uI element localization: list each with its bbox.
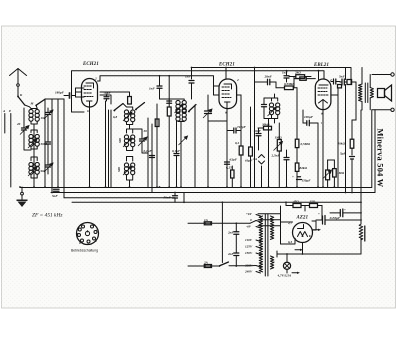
svg-text:50kΩ: 50kΩ xyxy=(338,142,346,146)
resistor 0.25M xyxy=(226,166,234,188)
svg-text:180pF: 180pF xyxy=(55,91,65,95)
svg-text:82kΩ: 82kΩ xyxy=(300,166,308,170)
wire: tube U2 pins xyxy=(214,86,242,187)
svg-text:3000: 3000 xyxy=(40,142,48,146)
wire: right verticals xyxy=(331,68,375,203)
svg-text:Betriebsschaltung: Betriebsschaltung xyxy=(71,249,98,253)
terminal A xyxy=(2,109,6,133)
phono input TA chevrons xyxy=(253,155,265,188)
capacitor 10nF xyxy=(254,128,262,150)
svg-text:45Ω: 45Ω xyxy=(292,200,299,204)
tuning cap C4 xyxy=(44,157,53,174)
arrow heater a xyxy=(313,229,321,231)
lamp dial xyxy=(283,254,290,273)
tuning cap C1 xyxy=(44,108,53,120)
svg-text:500: 500 xyxy=(117,167,121,172)
terminal E xyxy=(8,109,12,187)
svg-text:6,8: 6,8 xyxy=(113,115,117,119)
resistor R5 xyxy=(245,107,253,187)
svg-text:5nF: 5nF xyxy=(52,194,58,198)
svg-text:2x50µF: 2x50µF xyxy=(329,216,341,220)
tap 240V xyxy=(244,270,261,274)
label coil values left bank xyxy=(16,116,47,173)
resistor R15 heater b xyxy=(286,200,322,221)
svg-text:EBL21: EBL21 xyxy=(313,63,329,68)
svg-text:+: + xyxy=(344,208,346,212)
svg-text:110V: 110V xyxy=(245,238,253,242)
tap 110V xyxy=(245,238,261,242)
switch S2 xyxy=(30,99,65,109)
capacitor 5nF cathode xyxy=(52,189,59,198)
wire: det column xyxy=(255,82,298,187)
resistor R16 field coil xyxy=(359,202,365,254)
tap 150V xyxy=(245,251,261,255)
tube U1 ECH21 xyxy=(82,77,98,114)
tuning cap C2 xyxy=(20,122,29,136)
svg-text:2,5nF: 2,5nF xyxy=(271,154,281,158)
capacitor 0.1uF left xyxy=(144,149,155,158)
svg-text:500: 500 xyxy=(118,138,122,143)
arrow heater c xyxy=(292,272,300,274)
svg-text:1nF: 1nF xyxy=(149,87,155,91)
resistor R6 2kOhm xyxy=(289,71,311,79)
resistor R2 osc xyxy=(167,76,172,187)
capacitor 25nF pair EBL xyxy=(331,79,342,88)
transformer T2 secondary heater xyxy=(270,256,273,269)
svg-text:2: 2 xyxy=(94,77,97,81)
resistor R7 0.5MOhm xyxy=(276,82,297,90)
svg-text:0,5MΩ: 0,5MΩ xyxy=(301,142,311,146)
wire: bandfilter verticals xyxy=(106,101,158,193)
wire: AZ21 connections xyxy=(258,206,316,254)
svg-text:0,25: 0,25 xyxy=(226,166,232,170)
capacitor 2nF mains a xyxy=(227,223,239,234)
svg-text:2kΩ: 2kΩ xyxy=(294,71,301,75)
svg-text:0,1µF: 0,1µF xyxy=(144,149,153,153)
svg-text:-6V: -6V xyxy=(246,225,252,229)
svg-text:2: 2 xyxy=(92,223,95,227)
arrow heater b xyxy=(295,249,303,251)
svg-text:0,2: 0,2 xyxy=(235,141,239,145)
pot arrow feedback xyxy=(179,136,188,145)
coil L2 xyxy=(28,130,39,149)
capacitor tone cluster xyxy=(339,75,356,86)
transformer T1 secondary xyxy=(370,75,373,110)
coil L1 antenna MW/LW xyxy=(29,109,39,188)
trimmer C6 padder xyxy=(203,95,212,187)
capacitor 100uF cathode EBL xyxy=(303,110,318,187)
svg-text:3: 3 xyxy=(80,223,83,227)
svg-text:6,3: 6,3 xyxy=(288,240,292,244)
svg-text:150µF: 150µF xyxy=(302,179,312,183)
capacitor 63uF cathode U2 xyxy=(225,158,238,165)
resistor R4 xyxy=(235,95,243,187)
transformer T1 output primary xyxy=(359,68,363,111)
tap 220V xyxy=(244,264,261,268)
capacitor 28nF xyxy=(255,68,277,85)
capacitor 740pF xyxy=(227,125,247,133)
wire: mains vertical xyxy=(221,202,223,262)
resistor R13 1MOhm xyxy=(333,160,345,187)
wire: mixer grid link xyxy=(208,120,227,122)
svg-text:4: 4 xyxy=(77,226,80,230)
capacitor 150uF electrolytic xyxy=(292,175,311,183)
coil L5 bandfilter 1b with 500 label xyxy=(118,129,135,151)
capacitor 50nF bus xyxy=(164,193,185,203)
wire: top rail A y=70.7 xyxy=(72,71,325,112)
transformer T2 power primary xyxy=(259,216,262,272)
resistor R12 50kOhm xyxy=(338,120,354,155)
capacitor 5uF electrolytic xyxy=(340,152,355,193)
wire: bus B2 y=192.5 xyxy=(51,192,375,194)
tap -6V xyxy=(246,225,261,229)
svg-text:+: + xyxy=(292,175,294,179)
antenna xyxy=(10,69,27,98)
svg-text:240V: 240V xyxy=(244,270,253,274)
tap 0 xyxy=(250,218,261,222)
trimmer C5 xyxy=(133,129,148,153)
resistor R9 0.5MOhm AF xyxy=(295,139,310,163)
switch S6 mains xyxy=(219,262,250,267)
wire: bus B3 y=197.7 xyxy=(64,197,175,199)
capacitor 1nF osc grid xyxy=(185,75,194,100)
tap 125V xyxy=(245,245,261,249)
svg-text:AZ21: AZ21 xyxy=(296,216,309,221)
svg-text:30: 30 xyxy=(143,129,148,133)
wire: left bank verticals xyxy=(24,99,64,198)
fuse F1 1A xyxy=(188,218,250,225)
capacitor 180pF antenna xyxy=(55,91,76,99)
svg-text:150V: 150V xyxy=(245,251,253,255)
label bandfilter values xyxy=(113,115,147,133)
potentiometer tone xyxy=(323,160,335,187)
svg-text:61µF: 61µF xyxy=(245,159,253,163)
wire: tube U1 pins xyxy=(72,81,101,187)
speaker LS xyxy=(372,73,394,112)
transformer T1 core xyxy=(365,83,368,103)
switch S1 antenna xyxy=(17,87,31,109)
wire: EBL bottom xyxy=(321,110,323,187)
resistor R10 82kOhm xyxy=(295,163,307,187)
switch S3 xyxy=(100,95,123,111)
svg-text:1nF: 1nF xyxy=(185,75,191,79)
coil L4 bandfilter 1a xyxy=(123,104,135,130)
capacitor 1nF det xyxy=(282,71,289,83)
capacitor 2x50uF electrolytic b xyxy=(330,208,361,217)
capacitor 76pF xyxy=(104,91,112,101)
svg-text:50nF: 50nF xyxy=(164,196,172,200)
capacitor IF2 left xyxy=(262,98,272,119)
svg-text:+: + xyxy=(318,212,320,216)
svg-text:2: 2 xyxy=(236,78,239,82)
tube U2 ECH21 xyxy=(219,78,239,115)
svg-text:Minerva 504 W: Minerva 504 W xyxy=(376,129,385,188)
resistor R1 top feed xyxy=(100,92,131,104)
svg-text:100µF: 100µF xyxy=(304,115,314,119)
switch S5 osc xyxy=(188,105,196,188)
wire: taps to fuse/switch xyxy=(250,221,256,266)
socket diagram xyxy=(77,223,99,247)
capacitor 2x50uF electrolytic a xyxy=(316,212,361,225)
transformer T2 core xyxy=(265,214,268,276)
switch S4 xyxy=(135,103,144,111)
svg-text:15Ω: 15Ω xyxy=(310,200,316,204)
wire: heater bus y=254 xyxy=(277,253,361,255)
tube U4 AZ21 rectifier xyxy=(287,221,313,244)
capacitor 2nF mains b xyxy=(227,234,239,266)
coil L7 oscillator xyxy=(160,99,187,187)
wire: EBL top drop xyxy=(318,71,320,80)
potentiometer volume 1MOhm xyxy=(274,123,283,187)
svg-text:100: 100 xyxy=(41,116,46,120)
svg-text:63µF: 63µF xyxy=(230,158,238,162)
coil L8 IF transformer 2 xyxy=(268,94,280,123)
resistor R3 xyxy=(155,119,159,187)
ground xyxy=(17,187,28,207)
wire: tube2 anode top drop xyxy=(225,68,227,80)
capacitor 2.5nF xyxy=(271,150,290,187)
svg-text:5nF: 5nF xyxy=(339,75,345,79)
svg-text:740pF: 740pF xyxy=(237,125,247,129)
svg-text:ECH21: ECH21 xyxy=(82,62,99,67)
svg-text:1nF: 1nF xyxy=(282,71,288,75)
svg-text:+6V: +6V xyxy=(246,212,253,216)
wire: bus B4 y=202.3 xyxy=(72,201,361,203)
svg-text:ZF = 451 kHz: ZF = 451 kHz xyxy=(32,213,63,219)
svg-text:20: 20 xyxy=(16,122,21,126)
svg-text:125V: 125V xyxy=(245,245,253,249)
tap +6V xyxy=(246,212,261,216)
transformer T2 secondary HT xyxy=(270,216,273,239)
resistor R11 17kOhm grid xyxy=(294,77,315,88)
capacitor 1nF IF1 xyxy=(149,75,162,99)
svg-text:28nF: 28nF xyxy=(264,75,273,79)
wire: heater stubs xyxy=(274,251,277,262)
coil L3 xyxy=(28,157,39,178)
tube U3 EBL21 xyxy=(315,78,332,116)
wire: ground bus B1 y=187 xyxy=(20,187,372,189)
resistor R8 30kOhm xyxy=(258,123,272,130)
resistor R14 heater a xyxy=(292,200,301,208)
coil L6 bandfilter 1c xyxy=(117,157,135,188)
svg-text:4,7V/3,5A: 4,7V/3,5A xyxy=(277,274,292,278)
wire: top rail B y=67.5 xyxy=(192,68,352,85)
svg-text:960: 960 xyxy=(41,169,46,173)
capacitor 0.1uF right xyxy=(172,121,181,187)
wire: top rail C y=75.8 xyxy=(100,76,214,86)
trimmer C3 xyxy=(46,138,51,150)
fuse F2 2A xyxy=(188,261,218,268)
